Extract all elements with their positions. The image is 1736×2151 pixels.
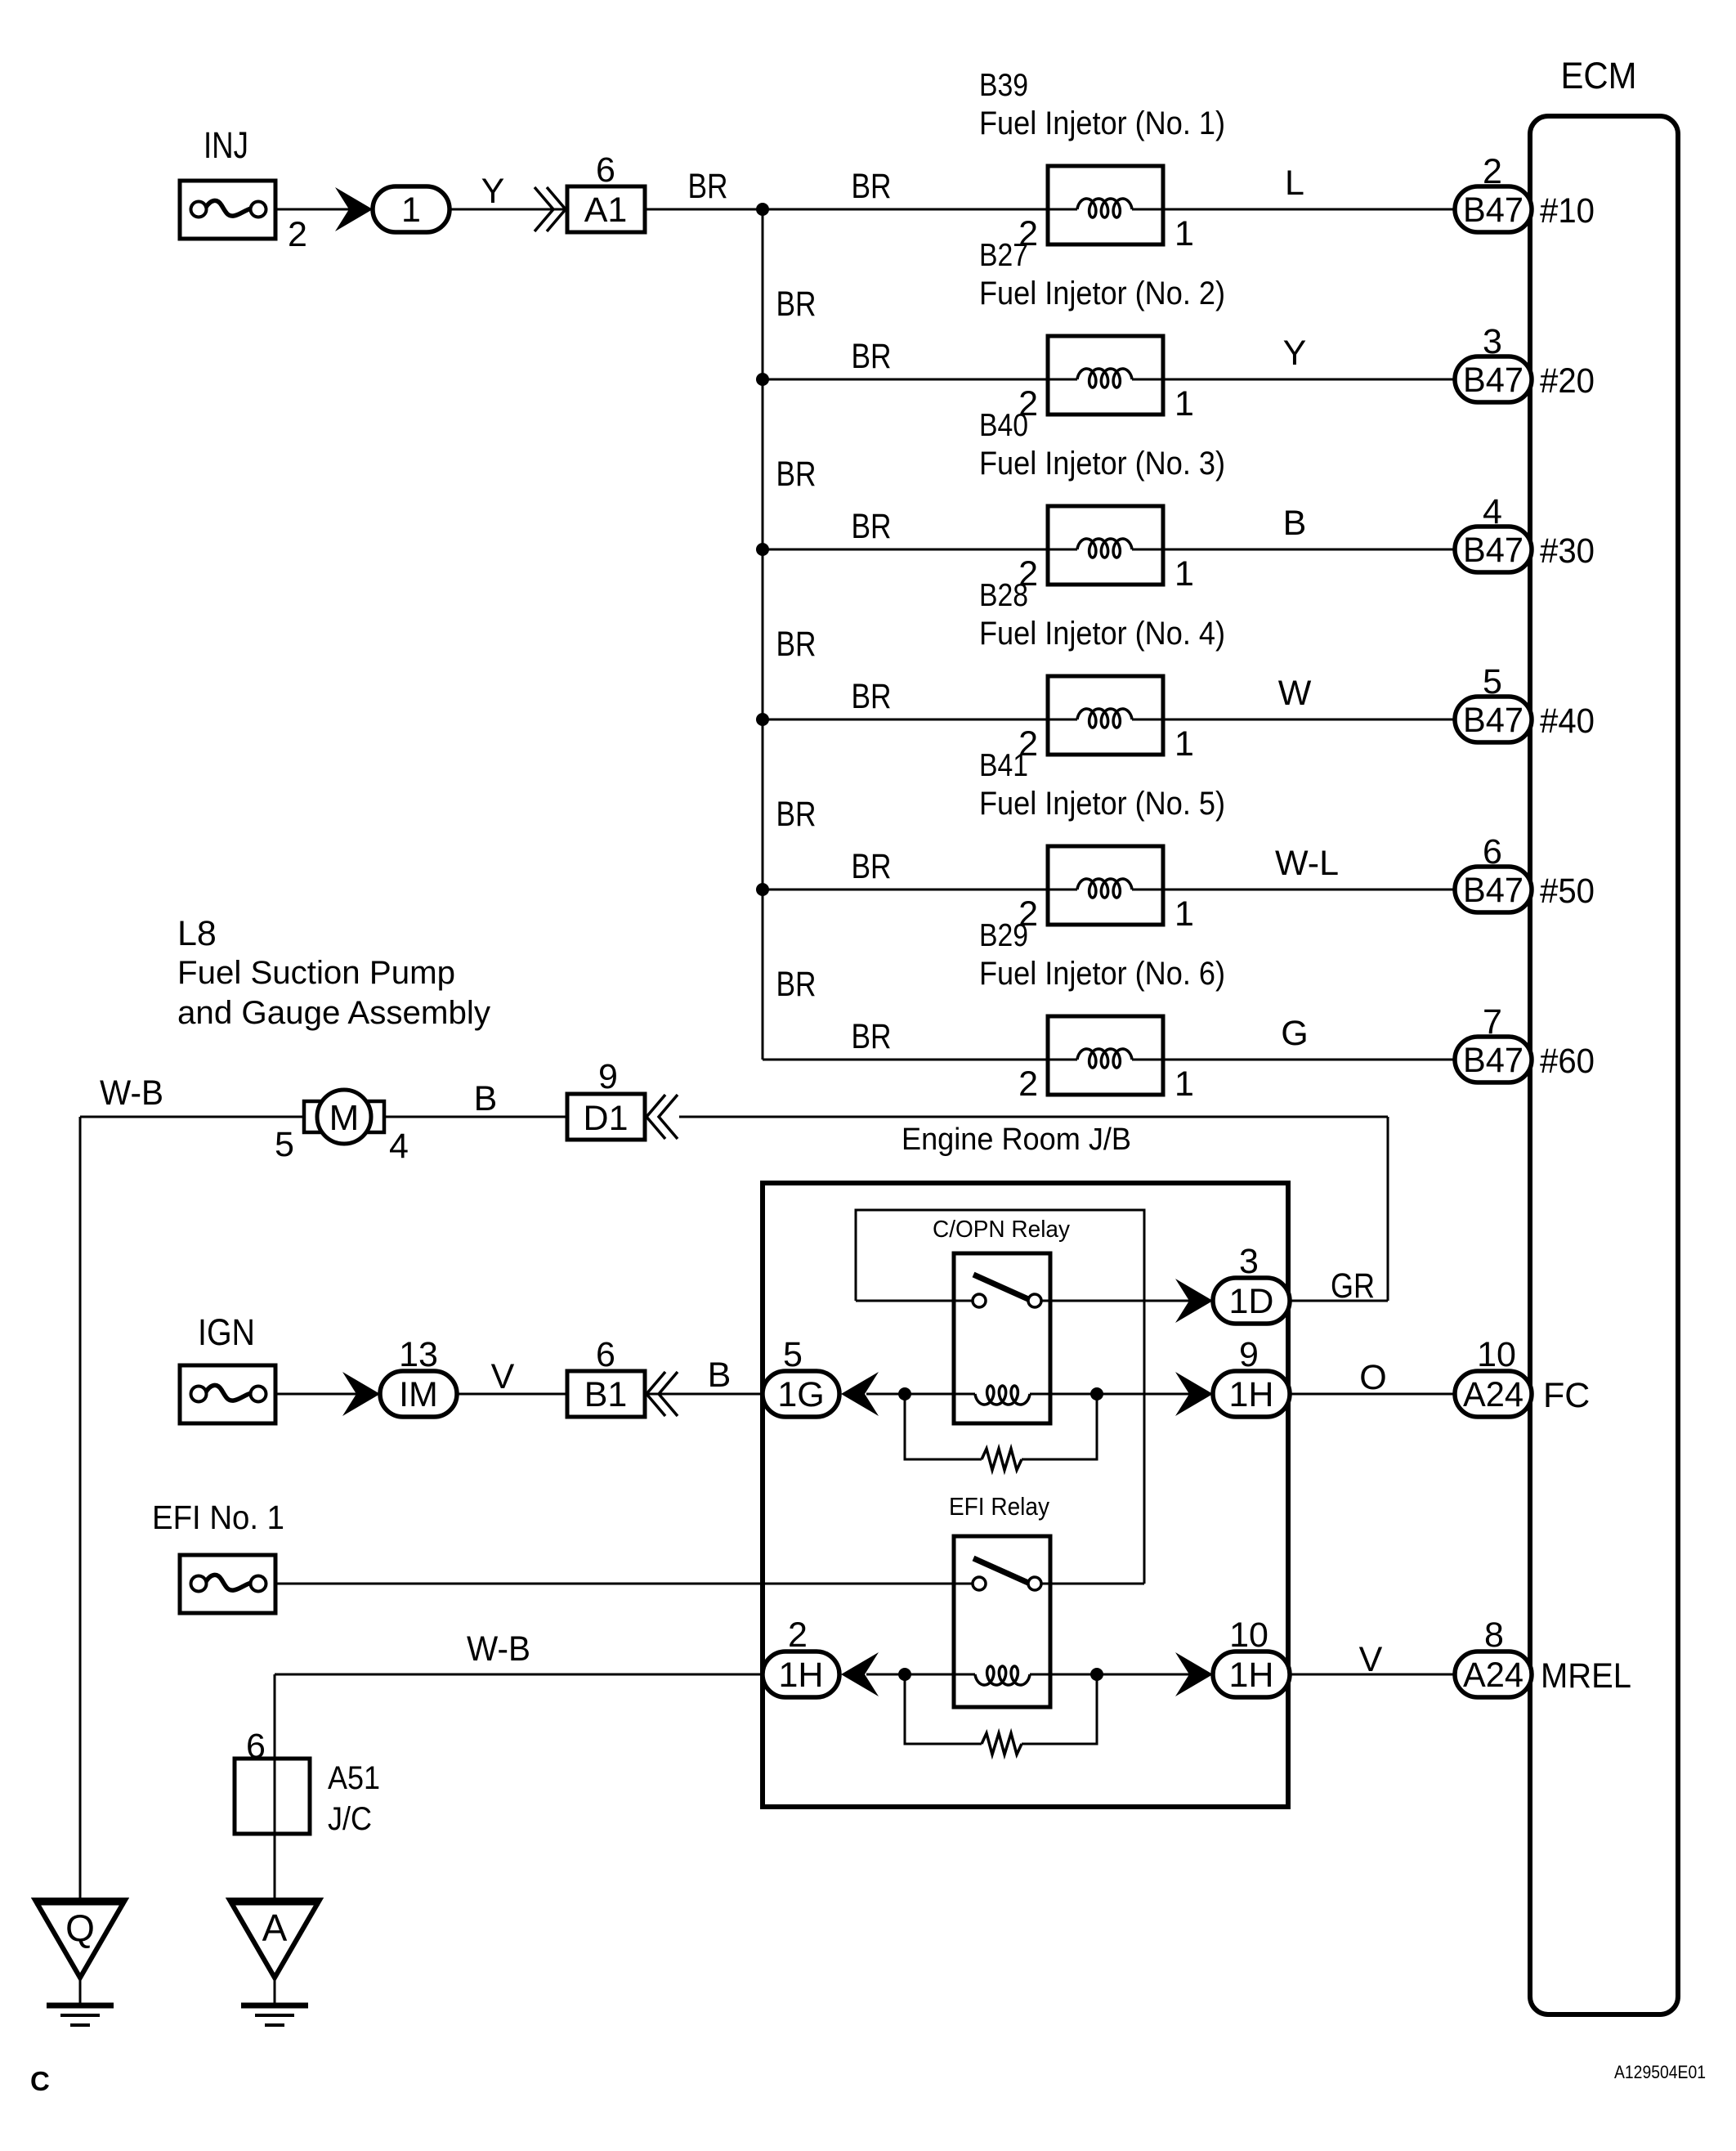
svg-text:FC: FC bbox=[1543, 1376, 1590, 1415]
svg-text:BR: BR bbox=[776, 285, 817, 324]
svg-text:A129504E01: A129504E01 bbox=[1614, 2062, 1706, 2082]
svg-text:1: 1 bbox=[1174, 724, 1194, 764]
svg-text:B: B bbox=[474, 1079, 498, 1118]
svg-text:B1: B1 bbox=[584, 1375, 628, 1414]
svg-text:13: 13 bbox=[399, 1335, 438, 1374]
svg-text:C: C bbox=[30, 2066, 50, 2096]
svg-text:MREL: MREL bbox=[1541, 1656, 1631, 1696]
svg-text:BR: BR bbox=[852, 167, 892, 206]
svg-text:Q: Q bbox=[65, 1907, 95, 1949]
svg-text:B47: B47 bbox=[1463, 701, 1523, 740]
svg-text:B: B bbox=[1283, 504, 1307, 543]
svg-text:5: 5 bbox=[783, 1335, 803, 1374]
svg-text:9: 9 bbox=[1239, 1335, 1259, 1374]
svg-text:B47: B47 bbox=[1463, 361, 1523, 400]
svg-text:#30: #30 bbox=[1540, 531, 1595, 571]
svg-text:1: 1 bbox=[1174, 554, 1194, 594]
svg-text:B41: B41 bbox=[979, 748, 1028, 783]
svg-text:B40: B40 bbox=[979, 408, 1028, 443]
svg-text:INJ: INJ bbox=[204, 124, 248, 166]
svg-text:V: V bbox=[491, 1357, 515, 1396]
svg-text:1: 1 bbox=[401, 190, 421, 230]
svg-text:W-B: W-B bbox=[100, 1073, 163, 1113]
svg-text:Fuel Injetor (No. 3): Fuel Injetor (No. 3) bbox=[979, 446, 1225, 482]
svg-text:M: M bbox=[329, 1098, 360, 1138]
svg-text:BR: BR bbox=[852, 1017, 892, 1056]
svg-text:IM: IM bbox=[399, 1375, 438, 1414]
svg-text:1H: 1H bbox=[779, 1656, 824, 1695]
svg-text:A51: A51 bbox=[328, 1760, 380, 1796]
svg-text:O: O bbox=[1359, 1358, 1386, 1397]
svg-text:Y: Y bbox=[481, 172, 505, 211]
svg-text:C/OPN Relay: C/OPN Relay bbox=[933, 1217, 1070, 1243]
svg-text:B47: B47 bbox=[1463, 871, 1523, 910]
svg-text:A24: A24 bbox=[1463, 1375, 1523, 1414]
svg-text:B29: B29 bbox=[979, 918, 1028, 953]
svg-text:6: 6 bbox=[596, 1335, 615, 1374]
svg-text:4: 4 bbox=[389, 1127, 409, 1166]
svg-text:1: 1 bbox=[1174, 214, 1194, 253]
svg-text:1H: 1H bbox=[1229, 1375, 1274, 1414]
svg-text:#50: #50 bbox=[1540, 872, 1595, 911]
svg-text:1D: 1D bbox=[1229, 1282, 1274, 1321]
svg-text:#60: #60 bbox=[1540, 1042, 1595, 1081]
svg-text:Y: Y bbox=[1283, 334, 1307, 373]
svg-text:EFI Relay: EFI Relay bbox=[949, 1492, 1049, 1521]
svg-text:1: 1 bbox=[1174, 384, 1194, 423]
svg-text:V: V bbox=[1359, 1640, 1383, 1679]
svg-text:Fuel Suction Pump: Fuel Suction Pump bbox=[177, 955, 455, 991]
svg-text:G: G bbox=[1281, 1014, 1308, 1053]
svg-text:A1: A1 bbox=[584, 190, 628, 230]
svg-text:3: 3 bbox=[1239, 1242, 1259, 1281]
svg-text:Fuel Injetor (No. 4): Fuel Injetor (No. 4) bbox=[979, 616, 1225, 652]
svg-text:ECM: ECM bbox=[1561, 55, 1637, 96]
svg-text:1G: 1G bbox=[777, 1375, 824, 1414]
svg-text:B47: B47 bbox=[1463, 190, 1523, 230]
svg-text:B47: B47 bbox=[1463, 531, 1523, 570]
svg-text:B: B bbox=[708, 1356, 732, 1395]
svg-text:BR: BR bbox=[852, 337, 892, 376]
svg-text:6: 6 bbox=[246, 1727, 266, 1766]
svg-text:J/C: J/C bbox=[328, 1801, 372, 1837]
svg-text:B27: B27 bbox=[979, 238, 1028, 273]
svg-text:Fuel Injetor (No. 6): Fuel Injetor (No. 6) bbox=[979, 956, 1225, 992]
svg-text:BR: BR bbox=[852, 677, 892, 716]
svg-text:2: 2 bbox=[288, 215, 307, 254]
svg-text:10: 10 bbox=[1229, 1615, 1268, 1655]
svg-text:BR: BR bbox=[688, 167, 728, 206]
svg-text:B28: B28 bbox=[979, 578, 1028, 613]
svg-text:W: W bbox=[1278, 674, 1312, 713]
svg-text:#10: #10 bbox=[1540, 191, 1595, 231]
svg-text:Fuel Injetor (No. 1): Fuel Injetor (No. 1) bbox=[979, 105, 1225, 141]
svg-text:BR: BR bbox=[776, 795, 817, 834]
svg-text:8: 8 bbox=[1484, 1615, 1504, 1655]
svg-text:and Gauge Assembly: and Gauge Assembly bbox=[177, 995, 490, 1031]
svg-text:2: 2 bbox=[1018, 1064, 1038, 1104]
svg-text:1: 1 bbox=[1174, 894, 1194, 934]
svg-text:BR: BR bbox=[852, 847, 892, 886]
svg-text:W-B: W-B bbox=[467, 1629, 530, 1669]
svg-text:1: 1 bbox=[1174, 1064, 1194, 1104]
svg-text:BR: BR bbox=[852, 507, 892, 546]
svg-text:B47: B47 bbox=[1463, 1041, 1523, 1080]
svg-text:Fuel Injetor (No. 2): Fuel Injetor (No. 2) bbox=[979, 276, 1225, 311]
svg-text:A: A bbox=[262, 1907, 288, 1949]
svg-text:L: L bbox=[1285, 164, 1304, 203]
svg-text:2: 2 bbox=[788, 1615, 808, 1655]
svg-text:9: 9 bbox=[598, 1057, 618, 1096]
svg-text:B39: B39 bbox=[979, 68, 1028, 103]
svg-text:BR: BR bbox=[776, 965, 817, 1004]
svg-text:GR: GR bbox=[1331, 1266, 1375, 1306]
svg-text:5: 5 bbox=[275, 1125, 294, 1164]
svg-text:#40: #40 bbox=[1540, 701, 1595, 741]
svg-text:EFI No. 1: EFI No. 1 bbox=[152, 1499, 284, 1536]
svg-text:A24: A24 bbox=[1463, 1656, 1523, 1695]
svg-text:#20: #20 bbox=[1540, 361, 1595, 401]
svg-text:L8: L8 bbox=[177, 914, 217, 953]
svg-text:BR: BR bbox=[776, 625, 817, 664]
svg-text:IGN: IGN bbox=[198, 1311, 255, 1353]
svg-text:Fuel Injetor (No. 5): Fuel Injetor (No. 5) bbox=[979, 786, 1225, 822]
svg-text:W-L: W-L bbox=[1275, 844, 1339, 883]
svg-text:10: 10 bbox=[1477, 1335, 1516, 1374]
svg-text:1H: 1H bbox=[1229, 1656, 1274, 1695]
svg-text:Engine Room J/B: Engine Room J/B bbox=[902, 1123, 1131, 1157]
svg-text:D1: D1 bbox=[584, 1099, 629, 1138]
svg-text:BR: BR bbox=[776, 455, 817, 494]
svg-text:6: 6 bbox=[596, 150, 615, 190]
